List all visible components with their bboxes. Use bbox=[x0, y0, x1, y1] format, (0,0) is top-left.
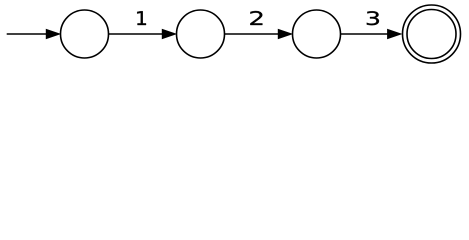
start arrowhead bbox=[46, 29, 59, 38]
state q0 circle bbox=[61, 10, 109, 58]
accepting state q3 inner circle bbox=[407, 10, 456, 59]
wire edge q1-q2 bbox=[225, 33, 279, 35]
accepting state q3 outer circle bbox=[403, 5, 461, 63]
label 3 bbox=[367, 11, 379, 25]
wire start edge bbox=[7, 33, 47, 35]
state q1 circle bbox=[177, 10, 225, 58]
arrowhead q2-q3 bbox=[388, 29, 401, 38]
arrowhead q1-q2 bbox=[278, 29, 291, 38]
label 2 bbox=[250, 11, 262, 25]
wire edge q2-q3 bbox=[341, 33, 388, 35]
arrowhead q0-q1 bbox=[162, 29, 175, 38]
wire edge q0-q1 bbox=[109, 33, 163, 35]
state q2 circle bbox=[293, 10, 341, 58]
label 1 bbox=[137, 11, 146, 25]
